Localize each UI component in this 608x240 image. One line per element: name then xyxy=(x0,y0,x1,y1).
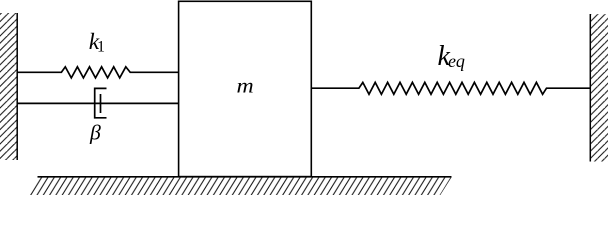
ground line xyxy=(38,176,452,178)
damper beta cup xyxy=(95,88,107,117)
wire damper lead xyxy=(17,102,179,104)
svg-text:β: β xyxy=(89,121,101,145)
right wall line xyxy=(589,14,591,162)
mass m block xyxy=(179,1,312,176)
spring keq xyxy=(311,82,590,94)
left wall line xyxy=(16,13,18,160)
left wall hatching xyxy=(0,13,17,160)
spring k1 xyxy=(17,67,179,78)
svg-text:keq: keq xyxy=(438,41,465,72)
svg-text:m: m xyxy=(237,76,254,98)
damper beta piston xyxy=(100,94,102,113)
right wall hatching xyxy=(591,14,608,162)
svg-text:k1: k1 xyxy=(89,29,105,56)
ground hatching xyxy=(26,177,451,195)
